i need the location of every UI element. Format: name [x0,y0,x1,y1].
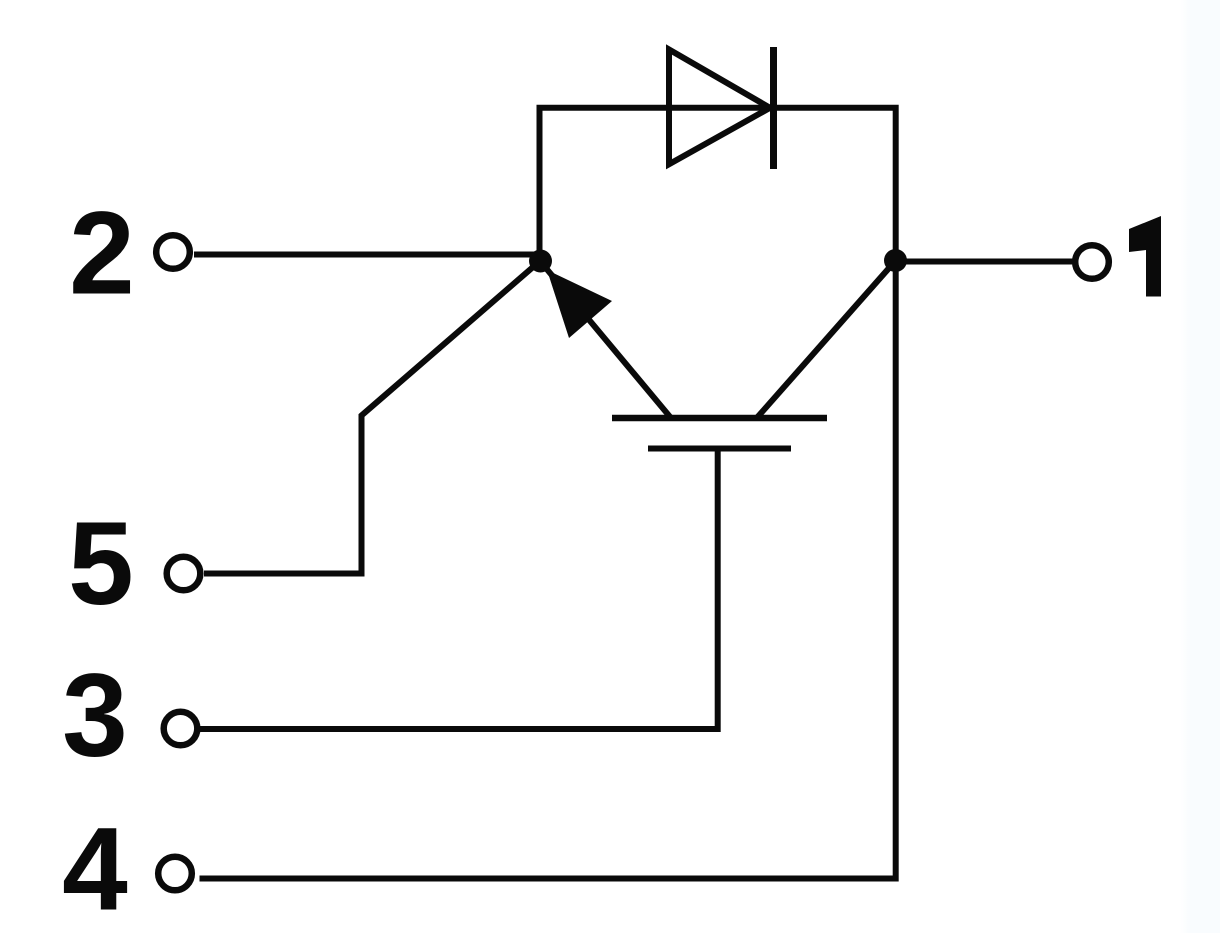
svg-text:2: 2 [69,188,135,320]
svg-text:5: 5 [68,498,134,630]
svg-text:3: 3 [62,650,128,782]
svg-text:4: 4 [62,804,128,933]
